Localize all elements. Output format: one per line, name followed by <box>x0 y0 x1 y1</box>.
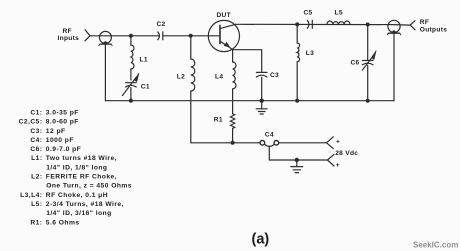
inductor L5 <box>327 21 350 24</box>
svg-text:C5: C5 <box>304 10 313 17</box>
svg-text:R1: R1 <box>214 117 223 124</box>
wire node to L2 <box>190 36 192 59</box>
capacitor C3 <box>256 71 267 73</box>
svg-text:C1: C1 <box>141 84 150 91</box>
svg-text:L1:: L1: <box>31 155 42 162</box>
svg-text:RF: RF <box>63 28 72 35</box>
node ground on 28V return <box>295 158 299 162</box>
wire C4 body to ground line (bottom) <box>269 147 327 161</box>
svg-text:L3,L4:: L3,L4: <box>20 192 42 199</box>
ground under C3 <box>261 101 263 109</box>
top rail collector to output <box>236 23 389 25</box>
node L3 bottom <box>295 99 299 103</box>
wire C2 to base <box>163 35 219 37</box>
wire node to C6 <box>367 25 369 61</box>
svg-text:1000 pF: 1000 pF <box>46 137 74 144</box>
resistor R1 <box>230 114 234 129</box>
RF input arrow <box>85 30 90 41</box>
wire C4 to +28V arrow (top) <box>279 142 326 144</box>
wire emitter to C3 <box>233 50 262 72</box>
svg-text:L4: L4 <box>215 74 223 81</box>
RF output arrow <box>410 21 415 30</box>
ground under 28V return <box>296 160 298 167</box>
emitter <box>220 41 233 50</box>
capacitor C2 <box>158 32 160 40</box>
node L3 top <box>295 22 299 26</box>
node L1 top <box>129 34 133 38</box>
svg-text:Two turns #18 Wire,: Two turns #18 Wire, <box>46 155 117 162</box>
svg-text:R1:: R1: <box>30 219 42 226</box>
node L2 top <box>189 34 193 38</box>
wire DC node to C4 <box>233 142 261 144</box>
wire C3 to rail <box>261 77 263 100</box>
base bar <box>219 25 221 43</box>
svg-text:Inputs: Inputs <box>58 35 80 42</box>
connector J2 output <box>388 20 400 32</box>
svg-text:C4:: C4: <box>30 137 42 144</box>
svg-text:28 Vdc: 28 Vdc <box>335 150 358 157</box>
wire node to L3 <box>296 24 298 43</box>
wire input arrow to C2 <box>90 35 159 37</box>
svg-text:5.6 Ohms: 5.6 Ohms <box>46 219 80 226</box>
wire connector down to rail <box>393 33 395 101</box>
inductor L4 <box>233 62 236 89</box>
svg-text:SeekIC.com: SeekIC.com <box>413 241 458 250</box>
svg-text:C3: C3 <box>270 72 279 79</box>
wire node to L1 <box>130 36 132 45</box>
node DC bias junction <box>231 141 235 145</box>
svg-text:1/4" ID, 3/16" long: 1/4" ID, 3/16" long <box>46 210 111 217</box>
svg-text:L2:: L2: <box>31 174 42 181</box>
capacitor C5 <box>307 20 309 28</box>
svg-text:C3:: C3: <box>30 128 42 135</box>
svg-text:C2,C5:: C2,C5: <box>19 119 43 126</box>
connector J1 input <box>99 31 111 43</box>
svg-text:L5:: L5: <box>31 201 42 208</box>
svg-text:FERRITE RF Choke,: FERRITE RF Choke, <box>46 174 117 181</box>
svg-text:One Turn, z = 450 Ohms: One Turn, z = 450 Ohms <box>46 183 132 190</box>
inductor L1 <box>131 45 134 69</box>
parts list <box>19 110 132 227</box>
svg-text:8.0-60 pF: 8.0-60 pF <box>46 119 79 126</box>
node C3 ground <box>260 99 264 103</box>
svg-text:C4: C4 <box>265 132 274 139</box>
svg-text:0.9-7.0 pF: 0.9-7.0 pF <box>46 146 81 153</box>
wire L1 to C1 <box>130 69 132 80</box>
collector <box>220 24 236 28</box>
svg-text:+: + <box>336 138 340 145</box>
svg-text:RF: RF <box>420 19 429 26</box>
wire C6 to rail <box>367 65 369 100</box>
wire L3 to rail <box>296 62 298 101</box>
wire C1 to rail <box>130 88 132 101</box>
svg-text:1/4" ID, 1/8" long: 1/4" ID, 1/8" long <box>46 164 107 171</box>
transistor Q1 DUT <box>208 20 239 51</box>
node C6 bottom <box>366 99 370 103</box>
svg-text:C6: C6 <box>351 60 360 67</box>
svg-text:C2: C2 <box>157 21 166 28</box>
svg-text:3.0-35 pF: 3.0-35 pF <box>46 110 79 117</box>
wire connector to output arrow <box>388 24 410 27</box>
capacitor C1 (variable) <box>126 82 137 84</box>
svg-text:C1:: C1: <box>30 110 42 117</box>
inductor L3 <box>297 43 299 62</box>
wire emitter to L4 <box>232 50 234 62</box>
wire L4 across rail to R1 <box>232 89 234 114</box>
svg-text:L5: L5 <box>335 10 343 17</box>
ground rail (bottom) <box>105 100 394 102</box>
svg-text:+: + <box>336 162 340 169</box>
svg-text:Outputs: Outputs <box>420 27 447 34</box>
wire R1 to DC node <box>232 128 234 142</box>
node C6 top <box>366 23 370 27</box>
svg-text:(a): (a) <box>252 232 270 248</box>
svg-text:L3: L3 <box>306 50 314 57</box>
svg-text:L2: L2 <box>177 74 185 81</box>
node C1 bottom <box>129 99 133 103</box>
svg-text:L1: L1 <box>140 57 148 64</box>
svg-text:C6:: C6: <box>30 146 42 153</box>
svg-text:RF Choke, 0.1 μH: RF Choke, 0.1 μH <box>46 192 108 199</box>
wire L2 down across rail to DC node <box>191 91 233 143</box>
svg-text:12 pF: 12 pF <box>46 128 66 135</box>
svg-text:DUT: DUT <box>217 12 231 19</box>
wire connector down to ground rail <box>104 44 106 101</box>
svg-text:2-3/4 Turns, #18 Wire,: 2-3/4 Turns, #18 Wire, <box>46 201 124 208</box>
capacitor C6 (variable) <box>362 60 373 62</box>
inductor L2 <box>191 59 195 91</box>
